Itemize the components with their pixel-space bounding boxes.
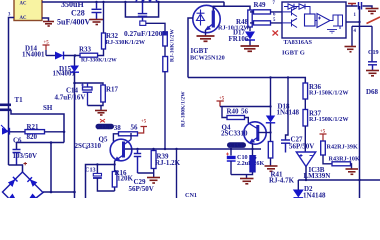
resistor R49a (horizontal) bbox=[254, 10, 271, 14]
label C14 value bbox=[55, 94, 86, 102]
svg-text:AC: AC bbox=[20, 2, 27, 7]
driver IC U2 box (TA8316AS) bbox=[282, 2, 346, 38]
label R33 value bbox=[81, 58, 117, 64]
svg-text:T1: T1 bbox=[15, 96, 24, 104]
wire R48 to D17 bbox=[249, 27, 251, 31]
wire R40 right to Q4 collector bbox=[245, 118, 249, 124]
resistor R21 (horizontal) bbox=[25, 130, 45, 134]
wire R43 to ground bbox=[351, 164, 352, 169]
IC internal buffer triangle bbox=[316, 14, 331, 28]
wire IGBT collector jog bbox=[213, 2, 224, 11]
wire R42 to R43 bbox=[323, 155, 332, 164]
svg-text:R40: R40 bbox=[227, 108, 240, 116]
inductor L (350uH) on bus bbox=[136, 0, 157, 2]
label C14 bbox=[66, 87, 79, 95]
wire D14 to R33 bbox=[64, 55, 81, 57]
label R39 bbox=[157, 153, 170, 161]
wire D15 down long vertical bbox=[74, 72, 76, 198]
resistor R16 (vertical) bbox=[112, 172, 117, 188]
label D14 value bbox=[22, 50, 45, 58]
wire R6 top bbox=[252, 149, 254, 156]
label CN1 bbox=[185, 192, 197, 199]
resistor R32 (vertical) bbox=[102, 33, 106, 49]
label C29 bbox=[134, 178, 147, 186]
wire R37 to comparator input bbox=[304, 126, 306, 152]
wire D18 anode from bus bbox=[270, 78, 272, 116]
label D15 bbox=[59, 65, 72, 73]
node dot C14 junction bbox=[73, 82, 76, 85]
capacitor C27 bbox=[281, 140, 290, 153]
pin 3 label bbox=[8, 13, 11, 18]
svg-text:(CPU): (CPU) bbox=[229, 144, 243, 149]
node plus mark bridge bbox=[24, 162, 28, 165]
label C19 bbox=[368, 49, 379, 56]
svg-text:2SC3310: 2SC3310 bbox=[221, 130, 248, 138]
wire C14/R17 top bbox=[75, 83, 104, 85]
svg-text:RJ-150K/1/2W: RJ-150K/1/2W bbox=[309, 116, 349, 123]
svg-text:120K: 120K bbox=[117, 175, 134, 183]
wire R21 to vertical bbox=[45, 131, 65, 133]
svg-text:IGBT G: IGBT G bbox=[282, 50, 305, 57]
power bar top right bbox=[348, 4, 356, 7]
svg-text:C19: C19 bbox=[368, 49, 379, 56]
svg-text:TA8316AS: TA8316AS bbox=[284, 39, 313, 46]
transistor Q5 bbox=[110, 139, 132, 161]
label C6 bbox=[13, 137, 22, 145]
svg-text:C13: C13 bbox=[85, 167, 96, 174]
resistor R37 (vertical) bbox=[303, 110, 308, 127]
node dot emitter rail bbox=[96, 163, 116, 165]
resistor R33 (horizontal) bbox=[80, 53, 98, 57]
capacitor C28 bbox=[92, 2, 102, 19]
label R17 bbox=[106, 86, 119, 94]
ground at C14/R17 bbox=[95, 111, 107, 116]
svg-text:AC: AC bbox=[20, 16, 27, 21]
bridge diode D-c (partial) bbox=[9, 194, 15, 199]
wire R40 left lead bbox=[222, 107, 227, 118]
bridge rectifier diamond bbox=[3, 172, 44, 198]
label 38 bbox=[114, 124, 122, 132]
wire top bus bbox=[42, 1, 224, 3]
svg-text:RJ-330K/1/2W: RJ-330K/1/2W bbox=[81, 58, 117, 64]
capacitor C6 bbox=[13, 150, 21, 166]
capacitor C14 (electrolytic) bbox=[81, 83, 92, 106]
label R40 value 56 bbox=[241, 108, 249, 116]
label D18 value 1N4148 bbox=[277, 109, 300, 117]
wire +5 to D14 bbox=[46, 55, 55, 57]
wire junction to D15 bbox=[74, 56, 76, 66]
red wire to fan (diagonal) bbox=[367, 17, 380, 24]
pin 7 label bbox=[273, 1, 276, 6]
label C27 value bbox=[289, 143, 314, 151]
wire bus to R32 bbox=[103, 2, 105, 33]
label R36 bbox=[309, 83, 322, 91]
IGBT Q (BCW25N120) bbox=[193, 5, 220, 32]
svg-text:C6: C6 bbox=[13, 137, 22, 145]
IC internal transistor b bbox=[282, 19, 297, 28]
svg-text:RJ-16K/1/2W: RJ-16K/1/2W bbox=[170, 29, 176, 62]
wire C10/R6 bottom bbox=[231, 172, 253, 178]
svg-text:CN1: CN1 bbox=[185, 192, 197, 198]
wire R35 down to base node bbox=[164, 72, 166, 149]
bridge diode D-a bbox=[8, 177, 18, 187]
power +5 at D14 bbox=[43, 41, 50, 56]
label SH bbox=[43, 104, 53, 112]
label R37 bbox=[309, 110, 322, 118]
label R41 value bbox=[269, 177, 295, 185]
svg-text:C28: C28 bbox=[71, 9, 85, 18]
label R35 value (rotated) bbox=[181, 91, 187, 127]
bridge module U-AC (yellow block) bbox=[14, 0, 42, 21]
wire R34 to R35 bbox=[164, 46, 166, 57]
label D2 bbox=[304, 185, 313, 193]
label 5uF/400V bbox=[57, 18, 91, 27]
svg-text:4.7uF/16V: 4.7uF/16V bbox=[55, 94, 86, 102]
wire R49a leads bbox=[250, 11, 282, 13]
wire snubber box bbox=[125, 2, 158, 17]
wire C14/R17 bottom bbox=[88, 102, 104, 110]
label R48 bbox=[236, 18, 249, 26]
bridge diode D-b bbox=[27, 177, 37, 187]
label R32 bbox=[106, 32, 119, 40]
wire C27 tap from bus bbox=[286, 78, 289, 140]
wire R49b leads bbox=[250, 22, 282, 24]
label C29 value bbox=[129, 185, 154, 193]
power +5 at R40 bbox=[217, 97, 225, 107]
wire bracket C6 net bbox=[17, 143, 65, 150]
diode D15 bbox=[70, 66, 79, 73]
resistor R42 (vertical) bbox=[321, 141, 326, 155]
label R32 value bbox=[106, 39, 146, 46]
resistor R35 (vertical) bbox=[163, 57, 168, 72]
label D18 bbox=[278, 103, 291, 111]
IC internal diode 2 bbox=[299, 4, 310, 14]
IC internal output stage bbox=[329, 15, 343, 29]
label Q5 type 2SC3310 bbox=[75, 142, 102, 150]
resistor R34 (vertical) bbox=[163, 32, 168, 47]
svg-text:(CPU): (CPU) bbox=[97, 125, 111, 130]
CPU pill label right bbox=[227, 142, 246, 149]
svg-text:R17: R17 bbox=[106, 86, 119, 94]
svg-text:LM339N: LM339N bbox=[304, 172, 331, 180]
node dots base rail bbox=[136, 148, 253, 150]
label R37 value bbox=[309, 116, 349, 123]
ground at IGBT emitter bbox=[197, 36, 215, 41]
svg-text:D68: D68 bbox=[366, 88, 379, 96]
transformer T1 plates bbox=[0, 105, 11, 110]
power +5 at R42 bbox=[320, 130, 327, 142]
node dot R21 net bbox=[63, 131, 66, 134]
optocoupler diode at left bbox=[1, 125, 10, 135]
node dot C28/bus bbox=[95, 1, 143, 3]
capacitor C10 (electrolytic, blue) bbox=[226, 149, 236, 175]
label D14 bbox=[25, 45, 38, 53]
label D68 bbox=[366, 88, 379, 96]
svg-text:5uF/400V: 5uF/400V bbox=[57, 18, 91, 27]
label C27 bbox=[291, 136, 304, 144]
wire emitter rail bbox=[86, 165, 115, 199]
capacitor C3 0.27uF bbox=[138, 2, 147, 21]
CPU pill label left bbox=[96, 124, 115, 131]
svg-text:56: 56 bbox=[131, 124, 139, 132]
svg-text:56: 56 bbox=[241, 108, 249, 116]
pin 2 label bbox=[86, 146, 89, 151]
wire diode to R21 bbox=[10, 131, 26, 133]
wire IGBT emitter to ground bbox=[205, 30, 207, 36]
wire IC pin1 row bbox=[346, 21, 361, 23]
pin 1 label bbox=[354, 13, 357, 18]
svg-text:1N4001: 1N4001 bbox=[53, 70, 76, 78]
label BCW25N120 bbox=[190, 55, 225, 62]
svg-text:R42RJ-39K: R42RJ-39K bbox=[327, 144, 358, 151]
wire gate bus y77.5 bbox=[188, 78, 305, 84]
label R49 bbox=[254, 1, 267, 9]
capacitor C29 bbox=[134, 149, 141, 173]
node dot bracket bbox=[50, 141, 53, 144]
wire R32 to R33 node bbox=[98, 49, 104, 56]
diode D18 bbox=[266, 116, 275, 123]
svg-text:+5: +5 bbox=[141, 120, 147, 125]
bridge diode D-d (partial) bbox=[30, 194, 37, 199]
IC internal transistor a bbox=[282, 8, 297, 17]
wire bridge bottom bus bbox=[43, 191, 75, 193]
IC internal square bbox=[305, 14, 316, 26]
svg-text:R21: R21 bbox=[27, 123, 40, 131]
label C6 value 103/50V bbox=[13, 152, 38, 160]
resistor R36 (vertical) bbox=[303, 83, 308, 99]
ground at C29/R39 bbox=[147, 178, 160, 184]
wire R36 to R37 bbox=[304, 99, 306, 110]
wire Q4 base to D18 line bbox=[258, 131, 272, 133]
label IC3B bbox=[309, 166, 325, 174]
wire bottom-left AC node bbox=[9, 165, 23, 172]
pin 6 label bbox=[273, 13, 276, 18]
svg-text:R49: R49 bbox=[254, 1, 267, 9]
resistor R38 (horizontal) bbox=[119, 132, 138, 136]
ground top right bbox=[366, 9, 379, 14]
label D15 value bbox=[53, 70, 76, 78]
wire Q5 collector up bbox=[130, 133, 132, 140]
label R33 bbox=[79, 46, 92, 54]
ground at C28 bbox=[90, 20, 104, 25]
label 350uH bbox=[61, 0, 84, 9]
capacitor C3 marker bbox=[140, 21, 146, 25]
wire T1 to right vertical bbox=[11, 110, 64, 143]
label C13 bbox=[85, 167, 96, 174]
wire Q5 emitter to R16 bbox=[114, 161, 116, 172]
wire Q4 emitter down bbox=[252, 143, 254, 149]
svg-text:R33: R33 bbox=[79, 46, 92, 54]
pin 4 label bbox=[354, 29, 357, 34]
label C10/R6 values bbox=[237, 160, 264, 167]
wire IC top right / cap bbox=[346, 6, 372, 9]
diode D17 bbox=[245, 32, 255, 46]
diode D14 bbox=[55, 52, 64, 60]
node dots gate bus bbox=[269, 76, 289, 78]
svg-text:RJ-4.7K: RJ-4.7K bbox=[269, 177, 295, 185]
label R34 value (rotated) bbox=[170, 29, 176, 62]
label R21 value 820 bbox=[27, 133, 38, 141]
ground at R41 bbox=[265, 166, 278, 171]
label IGBT bbox=[191, 47, 209, 55]
ground at bridge module bbox=[43, 22, 54, 27]
node dots bottom bus bbox=[50, 191, 76, 194]
svg-text:103/50V: 103/50V bbox=[13, 152, 38, 160]
label Q4 type 2SC3310 bbox=[221, 130, 248, 138]
svg-text:1N4148: 1N4148 bbox=[303, 192, 326, 199]
node dot feeder/D18 bbox=[269, 105, 271, 107]
svg-text:38: 38 bbox=[114, 124, 122, 132]
wire box right pin to ground bbox=[42, 18, 49, 21]
label D17 bbox=[233, 29, 246, 37]
resistor R6 (vertical, filled) bbox=[250, 156, 255, 173]
ground at D17 bbox=[241, 46, 260, 51]
capacitor C (top right, horizontal) bbox=[359, 2, 362, 10]
label R39 value bbox=[155, 159, 181, 167]
label R41 bbox=[271, 171, 284, 179]
wire collector jog to R48 bbox=[224, 6, 250, 10]
node dot D14/D15 junction bbox=[74, 54, 77, 57]
capacitor C13 bbox=[93, 165, 115, 192]
wire IC pin4 row bbox=[352, 26, 372, 61]
wire +5 feeder row y106.5 bbox=[220, 106, 271, 108]
wire box left pin down bbox=[9, 18, 15, 166]
resistor R48 (vertical) bbox=[248, 10, 252, 27]
svg-text:RJ-150K/1/2W: RJ-150K/1/2W bbox=[309, 90, 349, 97]
label R36 value bbox=[309, 90, 349, 97]
svg-text:BCW25N120: BCW25N120 bbox=[190, 55, 225, 62]
wire R41 to ground bbox=[270, 158, 272, 166]
svg-text:RJ-330K/1/2W: RJ-330K/1/2W bbox=[106, 39, 146, 46]
transistor Q4 bbox=[244, 122, 266, 144]
resistor R41 (vertical) bbox=[268, 142, 273, 159]
red X mark near CPU pill bbox=[100, 119, 105, 122]
label Q5 bbox=[99, 136, 108, 144]
svg-text:56P/50V: 56P/50V bbox=[129, 185, 154, 193]
svg-text:56P/50V: 56P/50V bbox=[289, 143, 314, 151]
red X mark at IC pin 2 bbox=[273, 31, 279, 36]
label R42 bbox=[327, 144, 358, 151]
svg-text:2SC3310: 2SC3310 bbox=[75, 142, 102, 150]
label Q4 bbox=[222, 124, 231, 132]
label C10 bbox=[237, 154, 248, 161]
label R40 bbox=[227, 108, 240, 116]
wire D18 to R41 bbox=[270, 123, 272, 142]
ground at C10/R6 bbox=[240, 179, 254, 184]
resistor R39 (vertical) bbox=[151, 151, 156, 169]
label R48 value bbox=[218, 25, 250, 32]
label R16 bbox=[115, 169, 128, 177]
svg-text:0.27uF/1200V: 0.27uF/1200V bbox=[124, 29, 168, 38]
svg-text:RJ-180K/1/2W: RJ-180K/1/2W bbox=[181, 91, 187, 127]
diode D2 bbox=[293, 190, 304, 198]
label 56 (R38) bbox=[131, 124, 139, 132]
wire R38 left to Q5 bbox=[113, 134, 118, 142]
svg-text:SH: SH bbox=[43, 104, 53, 112]
label C28 bbox=[71, 9, 85, 18]
svg-text:FR106: FR106 bbox=[229, 35, 249, 43]
label R21 bbox=[27, 123, 40, 131]
node dots bottom bus right bbox=[305, 179, 361, 181]
IC internal ground bbox=[327, 30, 337, 34]
wire CN1 drop bbox=[176, 149, 178, 198]
wire D2 stem bbox=[297, 180, 299, 190]
label IGBT G (bold) bbox=[282, 50, 305, 57]
ground at C19 bbox=[366, 71, 379, 76]
label T1 bbox=[15, 96, 24, 104]
label R6 bbox=[249, 154, 257, 161]
wire right long vertical bbox=[359, 6, 361, 198]
ground at IC pin4 bbox=[345, 47, 357, 52]
wire square to R34 chain bbox=[146, 23, 165, 32]
wire comparator output to bottom bus bbox=[298, 167, 380, 181]
label R43 bbox=[329, 156, 360, 163]
node dots box corners bbox=[124, 1, 160, 3]
svg-text:1N4001: 1N4001 bbox=[22, 50, 45, 58]
resistor R40 (horizontal) bbox=[227, 116, 245, 120]
resistor R49b (horizontal) bbox=[254, 21, 271, 25]
pin 5 label bbox=[273, 18, 276, 23]
label LM339N bbox=[304, 172, 331, 180]
label FR106 bbox=[229, 35, 249, 43]
wire base rail y149 bbox=[125, 148, 261, 150]
wire R39 stubs bbox=[138, 149, 154, 177]
resistor R17 (vertical) bbox=[101, 85, 106, 102]
resistor R43 (horizontal) bbox=[332, 162, 351, 166]
wire IGBT gate bbox=[188, 18, 193, 78]
power +5 at R38 bbox=[138, 120, 148, 134]
ground at R43 bbox=[346, 169, 359, 174]
label R16 value 120K bbox=[117, 175, 134, 183]
wire bracket down bbox=[50, 143, 52, 193]
comparator IC3B LM339N bbox=[296, 152, 315, 167]
label D2 value 1N4148 bbox=[303, 192, 326, 200]
IC internal diode 1 bbox=[284, 4, 299, 9]
capacitor C19 bbox=[368, 62, 377, 70]
label TA8316AS bbox=[284, 39, 313, 46]
label 0.27uF/1200V bbox=[124, 29, 168, 38]
svg-text:820: 820 bbox=[27, 133, 38, 141]
